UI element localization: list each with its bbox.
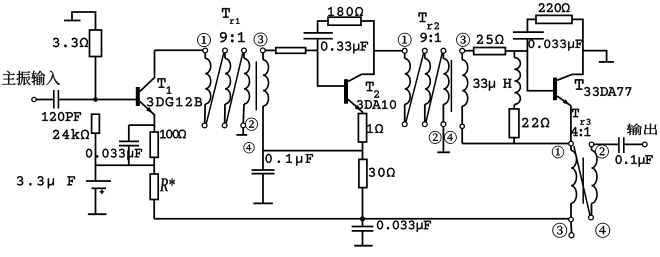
label pin3 Tr2 [456, 33, 469, 47]
Tr2 pin2 ground stub [442, 127, 444, 152]
label 24kΩ [53, 129, 89, 139]
inductor 33μH [514, 51, 520, 109]
node base of T1 (junction dot) [93, 97, 98, 102]
label T3 [575, 79, 590, 96]
Tr1 secondary winding [263, 53, 269, 151]
Tr2 secondary top terminal [460, 48, 465, 53]
wire series resistor to T2 base rail [306, 49, 318, 51]
transistor T3 emitter arrow [563, 99, 570, 105]
Tr2 winding3 top terminal [441, 48, 446, 53]
wire bias node to emitter chain [96, 164, 155, 166]
label 0.1μF (output) [616, 155, 653, 167]
label T1 [158, 78, 172, 94]
Tr2 winding2 bottom terminal [422, 122, 427, 127]
Tr2 winding1 bottom terminal [402, 122, 407, 127]
Tr3 core [582, 158, 584, 204]
capacitor 0.033μF bottom lead2 [362, 231, 364, 246]
Tr3 pin3 stub [570, 222, 573, 233]
capacitor 0.033μF bottom plates [352, 227, 374, 231]
Tr2 winding2 top terminal [422, 48, 427, 53]
capacitor 0.33μF plates [304, 33, 333, 39]
power supply tap (top-left) [72, 12, 96, 30]
Tr2 secondary winding [462, 53, 468, 124]
Tr1 winding2 top terminal [223, 48, 228, 53]
resistor 24kΩ body [92, 114, 100, 133]
wire Tr3 pin2 to output cap [594, 143, 619, 145]
ground bar below Tr1 pin2 [236, 134, 247, 136]
wire collector rail down [362, 51, 374, 75]
label pin1 Tr2 [398, 33, 411, 47]
wire 25Ω to T3 base rail [505, 50, 527, 52]
wire R* to ground rail [153, 200, 155, 219]
wire 22Ω to emitter wire [513, 138, 515, 144]
Tr2 winding1 top terminal [402, 48, 407, 53]
series resistor body (unlabeled) [276, 48, 306, 54]
resistor R* body [150, 174, 158, 200]
wire 24kΩ down to 3.3μF [95, 133, 97, 181]
transistor T2 emitter [348, 99, 362, 113]
label 1Ω [367, 124, 383, 133]
Tr1 secondary top terminal [260, 48, 265, 53]
label 220Ω [539, 3, 570, 12]
Tr1 link winding1-winding2 [206, 53, 224, 124]
label 输出 (output) [627, 124, 657, 136]
wire Tr2 pin4 down [461, 129, 463, 144]
label pin4 Tr1 [244, 142, 255, 153]
label 3.3μF [17, 176, 75, 188]
capacitor 0.033μF plates (T3) [513, 32, 544, 39]
ground rail [154, 218, 569, 220]
label 22Ω [522, 118, 549, 127]
resistor 220Ω body [536, 15, 572, 23]
label 3DA10 [357, 100, 396, 109]
capacitor 0.033μF lead down [128, 146, 130, 166]
Tr1 link winding2-winding3 [226, 53, 243, 124]
wire input to C 120PF [36, 99, 54, 101]
label pin4 Tr2 [444, 131, 456, 144]
capacitor 0.1μF lead [262, 151, 264, 204]
Tr3 winding2 [592, 147, 597, 215]
transistor T1 emitter [140, 102, 155, 133]
wire T3 base rail down [527, 51, 553, 91]
label 120PF [42, 112, 81, 121]
ground bar below bottom 0.033μF [354, 245, 372, 247]
transistor T2 emitter arrow [355, 105, 362, 111]
Tr2 winding2 [425, 53, 431, 122]
Tr2 core [450, 60, 452, 112]
Tr3 winding1 top terminal [569, 141, 574, 146]
capacitor 0.033μF lead up [128, 125, 130, 141]
label 100Ω [160, 130, 186, 139]
Tr1 winding1 top terminal [203, 48, 208, 53]
transistor T2 collector [348, 74, 362, 81]
label Tr3 [572, 109, 590, 125]
wire collector rail to Tr2 pin1 [374, 50, 402, 52]
power supply tap bar (right) [599, 61, 614, 63]
wire 100Ω to R* [153, 157, 155, 174]
label pin2 Tr3 [595, 145, 608, 159]
capacitor 0.033μF bottom lead [362, 219, 364, 227]
wire T1 emitter bypass tee [129, 124, 155, 126]
capacitor 0.1μF plates (Tr1) [252, 170, 275, 174]
Tr3 winding2 bottom terminal [589, 215, 594, 220]
label 0.33μF [321, 42, 368, 54]
transistor T2 base bar [344, 79, 348, 104]
capacitor 3.3μF bottom plate [92, 187, 107, 189]
Tr1 winding1 bottom terminal [202, 123, 207, 128]
Tr1 winding3 [243, 53, 249, 123]
Tr2 winding1 [405, 53, 411, 122]
capacitor 120PF [54, 90, 59, 109]
wire 3.3Ω to base node [95, 57, 97, 98]
label pin1 Tr1 [197, 33, 210, 47]
label R* [160, 179, 175, 192]
wire collector rail to supply tap [583, 51, 607, 62]
Tr1 winding3 top terminal [242, 48, 247, 53]
label 33μH [473, 79, 511, 91]
Tr2 secondary bottom terminal [460, 124, 464, 128]
Tr2 pin2 terminal [441, 122, 446, 127]
wire Tr2 pin4 to T3 emitter node [462, 143, 569, 145]
transistor T1 collector [140, 50, 155, 91]
label 3.3Ω [53, 38, 88, 47]
transistor T3 emitter [557, 96, 571, 141]
wire output cap to terminal [624, 143, 643, 145]
wire 30Ω to ground rail [362, 188, 364, 219]
label 25Ω [477, 35, 504, 44]
wire base rail up to 0.33μF [317, 39, 319, 51]
Tr1 winding2 [225, 53, 231, 123]
wire Tr1 pin4 to 1Ω/30Ω junction [263, 150, 363, 152]
wire 220Ω to T3 collector rail [572, 19, 583, 50]
Tr1 winding2 bottom terminal [222, 123, 227, 128]
label pin2 Tr2 [429, 131, 441, 144]
transistor T1 emitter arrow [146, 107, 153, 113]
wire T3 base rail up to 0.033μF [526, 39, 528, 51]
capacitor 3.3μF polarity + [100, 190, 105, 195]
label 0.033μF (bottom) [377, 221, 431, 232]
label pin3 Tr1 [254, 33, 267, 47]
power supply tap bar [64, 20, 81, 22]
capacitor 3.3μF top plate [86, 180, 111, 182]
transistor T3 collector [557, 74, 572, 80]
label pin3 Tr3 [553, 223, 568, 238]
resistor 3.3Ω body [90, 30, 102, 57]
wire 0.33μF up to 180Ω [318, 21, 328, 33]
resistor 100Ω body [150, 132, 158, 157]
label pin1 Tr3 [552, 146, 564, 158]
wire 180Ω to collector rail [361, 21, 374, 51]
label 0.1μF (Tr1) [266, 154, 314, 166]
resistor 180Ω body [328, 17, 361, 25]
node 30Ω/ground rail junction [360, 216, 365, 221]
capacitor 0.033μF plates [119, 141, 139, 145]
wire T1 collector to Tr1 pin1 [155, 49, 203, 51]
Tr3 pin3 terminal [569, 233, 574, 238]
label Tr1 [222, 8, 240, 24]
label 30Ω [369, 168, 395, 177]
label 4:1 (Tr3 ratio) [571, 127, 591, 136]
wire collector rail down (T3) [572, 51, 583, 75]
wire 0.033μF up to 220Ω [527, 19, 536, 32]
wire Tr1 pin3 to series resistor [265, 49, 276, 51]
label Tr2 [419, 13, 440, 30]
resistor 30Ω body [359, 159, 367, 187]
Tr3 link pin1-pin4 [574, 146, 590, 215]
Tr1 winding1 [205, 53, 211, 123]
transistor T3 base bar [553, 78, 557, 101]
Tr2 winding3 [443, 53, 449, 122]
resistor 25Ω body [474, 48, 506, 55]
label 0.033μF (emitter bypass) [86, 149, 142, 160]
label T2 [366, 82, 379, 98]
label 3DG12B [147, 97, 202, 106]
Tr1 pin2 ground stub [242, 128, 244, 135]
label 9:1 (Tr2 ratio) [421, 33, 442, 42]
wire 3.3μF to ground bar [95, 188, 97, 214]
ground bar below 3.3μF [88, 213, 107, 215]
ground bar below Tr2 pin2 [437, 151, 450, 153]
label 3DA77 [593, 87, 632, 96]
ground bar below 0.1μF [253, 202, 273, 204]
Tr3 winding1 [571, 146, 577, 217]
label 180Ω [328, 7, 363, 16]
resistor 1Ω body [358, 114, 366, 143]
Tr2 link winding1-winding2 [406, 53, 424, 122]
label 主振输入 (oscillator input) [2, 71, 60, 86]
resistor 22Ω body [509, 109, 519, 138]
label 9:1 (Tr1 ratio) [220, 32, 245, 42]
Tr1 core [255, 62, 257, 111]
output terminal [643, 142, 648, 147]
Tr1 pin2 terminal [241, 123, 246, 128]
label pin2 Tr1 [245, 118, 258, 131]
wire base rail down to T2 base [318, 50, 344, 86]
wire 1Ω to 30Ω [362, 142, 364, 159]
wire C120PF to T1 base [58, 99, 135, 101]
Tr3 winding2 top terminal [589, 142, 594, 147]
Tr3 winding1 bottom junction [569, 217, 574, 222]
capacitor 0.1μF output plates [619, 137, 624, 153]
label 0.033μF (T3) [528, 40, 582, 51]
wire Tr2 pin3 to 25Ω [465, 50, 474, 52]
transistor T1 base bar [136, 87, 140, 106]
label pin4 Tr3 [596, 223, 611, 238]
input terminal [32, 97, 36, 101]
Tr2 link winding2-winding3 [426, 53, 442, 122]
